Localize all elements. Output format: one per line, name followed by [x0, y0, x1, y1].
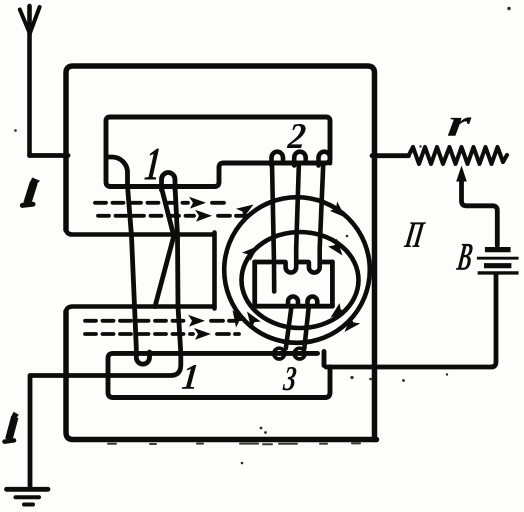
flux dashes lower row 1 [85, 319, 187, 323]
label 3 [282, 367, 296, 390]
flux dashes upper row 1 [95, 201, 188, 205]
core bottom window [108, 353, 330, 397]
flux arrow lower row 2 [194, 328, 211, 340]
winding 2 wire c into u-loop 2 [309, 163, 323, 273]
flux arrow upper row 2 [195, 210, 212, 222]
flux arrow lower row 1 [188, 315, 205, 327]
inner flux ellipse [242, 232, 359, 328]
label r [448, 117, 472, 135]
antenna [20, 6, 40, 156]
outer circle arrow top-left [236, 199, 257, 218]
core upper piece outline [66, 66, 375, 440]
winding 3 n-loop 1 on tube bottom [288, 297, 298, 307]
outer circle arrow bottom-right [340, 315, 360, 336]
label 1 top [144, 149, 159, 180]
flux dashes upper row 2 [98, 214, 194, 218]
inner circle arrow top-left [242, 241, 263, 261]
label B battery [456, 244, 474, 270]
label 1 bottom [182, 365, 197, 389]
core slot top edge [66, 229, 213, 235]
outer flux circle [224, 197, 370, 343]
wiper stem wire to battery [462, 177, 498, 246]
wire battery to winding 3 [326, 275, 496, 367]
winding 1 right wire to ground [30, 186, 181, 488]
winding 3 wire 2 [304, 306, 309, 348]
outer circle arrow top-right [329, 202, 349, 222]
label 2 [287, 124, 306, 148]
inner circle arrow bottom-left [242, 308, 261, 329]
label I bottom [5, 412, 19, 442]
winding 2 loop b [294, 152, 306, 166]
ground [7, 489, 49, 504]
winding 2 wire b into u-loop 1 [286, 163, 299, 273]
tube rectangle bottom edge [255, 304, 333, 309]
winding 3 wire 1 [286, 306, 292, 348]
winding 1 diagonal [155, 188, 174, 307]
resistor r zigzag [409, 147, 508, 164]
winding 3 n-loop 2 on tube bottom [308, 297, 318, 307]
winding 1 arch at notch [106, 157, 128, 187]
flux dashes lower row 2 [85, 332, 193, 336]
battery B plates [477, 250, 519, 273]
potentiometer wiper arrow [456, 166, 467, 182]
wire antenna to core [30, 153, 69, 158]
label I top [22, 178, 40, 206]
inner circle arrow top-right [327, 238, 347, 259]
winding 3 ring 1 on window edge [274, 348, 285, 359]
winding 2 wire a dead-end inside tube [272, 163, 274, 292]
winding 2 loop c [319, 152, 331, 166]
bottom window notch tick [322, 352, 327, 366]
label P (Cyrillic Pe) [404, 222, 426, 247]
wire core to resistor [372, 153, 409, 158]
winding 1 top loop [162, 173, 176, 190]
core slot right edge [212, 233, 217, 309]
tube rectangle right edge [330, 262, 335, 306]
core lower piece left edge and bottom [66, 312, 377, 440]
winding 3 ring 2 on window edge [294, 348, 305, 359]
winding 2 loop a [272, 152, 284, 166]
winding 1 left wire with u-loop [128, 186, 150, 364]
inner circle arrow bottom-right [327, 302, 348, 322]
scan roughness under core bottom edge [108, 442, 360, 445]
tube rectangle left edge [252, 262, 257, 306]
core slot bottom edge [66, 307, 213, 314]
tube rectangle top edge segments [255, 260, 333, 265]
core top window [106, 117, 330, 187]
flux arrow upper row 1 [189, 197, 206, 209]
outer circle arrow bottom-left [227, 307, 246, 328]
